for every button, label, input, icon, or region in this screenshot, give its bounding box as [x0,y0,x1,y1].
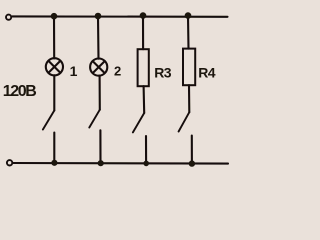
switch S2 blade [89,110,100,128]
wire branch2 lamp-to-switch [99,76,101,110]
svg-text:R4: R4 [198,65,216,81]
wire branch3 resistor-to-switch [143,86,146,113]
lamp 1 [46,58,63,75]
wire branch3 stub [145,136,147,163]
node junction bottom branch3 [143,161,149,167]
svg-text:R3: R3 [154,65,172,81]
switch S3 blade [133,113,144,132]
wire branch1 stub [53,133,55,164]
resistor R4 [183,49,195,86]
node junction bottom branch4 [189,160,195,166]
node junction top branch2 [95,13,102,20]
node junction top branch4 [185,12,192,19]
switch S4 blade [179,112,190,131]
node junction top branch3 [140,12,147,19]
wire branch2 stub [99,130,101,163]
wire top bus [12,15,227,17]
svg-text:120В: 120В [3,83,36,100]
wire bottom bus [13,162,228,165]
resistor R3 [138,49,149,86]
wire branch4 top [187,16,190,49]
wire branch4 resistor-to-switch [188,85,190,112]
lamp 2 [90,59,107,76]
node junction top branch1 [51,13,58,20]
terminal bottom-left [7,160,12,165]
node junction bottom branch1 [51,160,57,166]
wire branch2 top [97,16,100,58]
svg-text:1: 1 [70,63,78,79]
node junction bottom branch2 [98,160,104,166]
switch S1 blade [43,111,54,130]
wire branch1 top [53,16,55,58]
wire branch1 lamp-to-switch [53,75,55,110]
svg-text:2: 2 [114,64,121,79]
wire branch3 top [142,16,144,49]
terminal top-left [6,15,11,20]
wire branch4 stub [191,136,193,164]
